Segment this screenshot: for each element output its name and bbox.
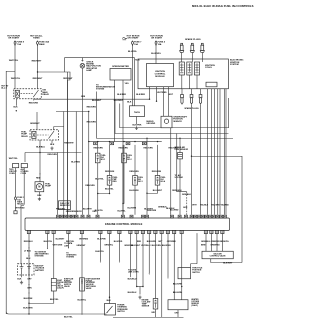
svg-text:YEL/BLK: YEL/BLK — [200, 205, 209, 207]
relay1 ground dot — [16, 110, 17, 111]
svg-text:FUSE 410A: FUSE 410A — [158, 41, 166, 46]
wire x47.5 down — [47, 233, 49, 248]
svg-text:BLU/YEL: BLU/YEL — [128, 51, 138, 53]
junction x89 y112 — [88, 111, 89, 112]
wire loop right — [192, 156, 243, 262]
svg-text:GRY: GRY — [158, 241, 163, 243]
bus dot 2 — [109, 141, 110, 142]
heated oxygen sensor box — [168, 300, 188, 310]
svg-text:GRN/WHT: GRN/WHT — [30, 123, 40, 125]
wire plug3 to coil — [201, 54, 203, 62]
ignition control module U1 — [147, 64, 174, 87]
ECM top connector 15 — [178, 215, 181, 218]
lamp CHECK ENGINE — [80, 63, 85, 68]
two-circuit connector A — [13, 164, 19, 168]
wire batt blk — [21, 275, 23, 277]
bus dot 3 — [123, 141, 124, 142]
svg-text:BLU/RED: BLU/RED — [71, 161, 80, 163]
svg-text:GRN/ORN: GRN/ORN — [124, 245, 134, 247]
svg-text:BLU/RED: BLU/RED — [114, 241, 123, 243]
svg-text:LT BLU: LT BLU — [24, 251, 32, 253]
ECM bottom connector 12 — [148, 230, 151, 233]
svg-text:WHT: WHT — [192, 205, 197, 207]
wire x161.75 down — [161, 233, 163, 317]
svg-text:BLU/GRN: BLU/GRN — [173, 284, 183, 286]
wire ect ground — [155, 309, 157, 317]
svg-text:ENGINECOOLANTTEMPSENSOR: ENGINECOOLANTTEMPSENSOR — [142, 299, 152, 307]
junction dl2 — [142, 286, 143, 287]
wire coil1 down — [181, 75, 183, 89]
ECM top connector 14 — [170, 215, 173, 218]
ECM bottom connector 14 — [160, 230, 163, 233]
ECM bottom connector 1 — [27, 230, 30, 233]
svg-text:MXX-XL ELEC W-DIAG FUEL IN: MXX-XL ELEC W-DIAG FUEL INJ CONTROLS — [192, 4, 254, 8]
svg-text:WHT/GRN: WHT/GRN — [53, 245, 63, 247]
svg-text:WHT: WHT — [168, 94, 173, 96]
evap solenoid box — [51, 279, 56, 292]
svg-text:SPARK PLUGS: SPARK PLUGS — [184, 107, 199, 110]
svg-text:BRN: BRN — [201, 245, 206, 247]
svg-text:BLK: BLK — [107, 300, 112, 302]
wire module to crank 1 — [163, 87, 165, 117]
injector supply bus — [89, 141, 162, 143]
relay2 inner dash — [37, 134, 49, 136]
svg-text:BLU/WHT: BLU/WHT — [83, 209, 93, 211]
svg-text:BLK/BLU: BLK/BLU — [36, 146, 45, 148]
wire x136.75 down — [136, 233, 138, 286]
wire vert x123 speedo — [122, 145, 124, 215]
ECM top connector 7 — [81, 215, 84, 218]
ground tach — [135, 126, 138, 129]
svg-text:RED/WHT: RED/WHT — [63, 78, 73, 80]
svg-text:FUSE 115AMAINRELAY: FUSE 115AMAINRELAY — [17, 197, 24, 205]
evap solenoid hatch — [51, 283, 56, 286]
arrow x29 c — [28, 284, 29, 285]
svg-text:FUELINJNO.3: FUELINJNO.3 — [138, 177, 144, 183]
ECM bottom connector 7 — [108, 230, 111, 233]
wire tach ground — [136, 117, 138, 125]
ign main relay box — [14, 89, 42, 99]
junction x147 top — [146, 138, 147, 139]
wire o2 feed1 — [173, 233, 175, 300]
ECM top connector 9 — [96, 215, 99, 218]
throttle position switch box — [178, 268, 191, 279]
ECM bottom connector 5 — [80, 230, 83, 233]
svg-text:BLK/PNK: BLK/PNK — [133, 125, 142, 127]
wire speedo left down — [114, 80, 116, 142]
spark plug P2 — [190, 43, 194, 54]
svg-text:VSS: VSS — [125, 83, 130, 85]
wire coil3 down — [196, 75, 198, 89]
ECM top connector 1 — [57, 215, 60, 218]
wire o2 ground — [177, 310, 179, 318]
wire left connB down — [21, 168, 24, 264]
ECM top connector 6 — [75, 215, 78, 218]
arrow x29 d — [28, 293, 29, 294]
svg-text:RED/GRN: RED/GRN — [48, 154, 58, 156]
svg-text:TOINSTRUMENTATIONSYSTEM: TOINSTRUMENTATIONSYSTEM — [96, 84, 116, 90]
svg-text:RED/GRN: RED/GRN — [119, 147, 129, 149]
svg-text:HOT IN RUNOR START: HOT IN RUNOR START — [7, 35, 20, 39]
ECM top connector 24 — [216, 215, 219, 218]
ECM bottom connector 2 — [46, 230, 49, 233]
ECM bottom connector 10 — [135, 230, 138, 233]
ECM bottom connector 21 — [221, 230, 224, 233]
junction module left — [149, 99, 150, 100]
relay1 out left — [15, 99, 17, 106]
wire x149.25 down — [148, 233, 150, 273]
ECM bottom connector 4 — [67, 230, 70, 233]
wire x82 down — [81, 233, 83, 315]
svg-text:BLU/GRN: BLU/GRN — [129, 190, 139, 192]
electronic ignition outer box — [138, 59, 228, 89]
wire ect feed — [155, 233, 157, 298]
svg-text:IDLE AIRCONTROL VALVE: IDLE AIRCONTROL VALVE — [210, 252, 227, 257]
svg-text:RED/GRN: RED/GRN — [87, 107, 97, 109]
svg-text:POWERSTEERINGPRESSURESWITCH: POWERSTEERINGPRESSURESWITCH — [117, 305, 128, 313]
fuel injector 3 — [133, 176, 138, 186]
wire iat feed — [179, 138, 181, 152]
svg-text:FUELINJNO.4: FUELINJNO.4 — [161, 177, 167, 183]
svg-text:RED/GRN: RED/GRN — [144, 147, 154, 149]
relay2 coil — [32, 131, 36, 138]
svg-text:FUSE 30AMAIN: FUSE 30AMAIN — [39, 41, 49, 46]
svg-text:RED/WHT: RED/WHT — [33, 78, 43, 80]
ECM top connector 10 — [121, 215, 124, 218]
wire branch to x70 — [38, 72, 71, 215]
two-circuit connector B — [21, 164, 27, 168]
iat hatch — [178, 155, 183, 157]
svg-text:BLK: BLK — [50, 144, 55, 146]
plug connector J1 — [181, 89, 184, 105]
svg-text:FUELINJNO.1: FUELINJNO.1 — [101, 155, 107, 161]
wire module blk/red left — [149, 87, 151, 99]
svg-text:BRN/YEL: BRN/YEL — [220, 241, 230, 243]
junction dl1 — [136, 286, 137, 287]
svg-text:RED/GRN: RED/GRN — [94, 147, 104, 149]
ECM top connector 20 — [201, 215, 204, 218]
bus dot 0 — [88, 141, 89, 142]
svg-text:FUELINJNO.2: FUELINJNO.2 — [127, 155, 133, 161]
ECM top connector 23 — [212, 215, 215, 218]
svg-text:BLK: BLK — [37, 195, 42, 197]
svg-text:EVAP/CANPURGEVACUUMSWITCHVALVE: EVAP/CANPURGEVACUUMSWITCHVALVE — [64, 277, 74, 288]
inline connector strip 1 — [94, 142, 98, 145]
svg-text:BACKUPVOLTAGEBATTERY: BACKUPVOLTAGEBATTERY — [35, 265, 45, 272]
plug connector J2 — [190, 89, 193, 105]
ECM top connector 4 — [68, 215, 71, 218]
svg-text:SHIELDGROUND: SHIELDGROUND — [146, 121, 155, 125]
wire iac feed4 — [222, 233, 224, 251]
arrow x68.5 — [68, 248, 69, 249]
arrow x29 a — [28, 248, 29, 249]
svg-text:SPARK PLUGS: SPARK PLUGS — [185, 38, 201, 41]
svg-text:HOT AT ALLTIMES: HOT AT ALLTIMES — [30, 34, 43, 39]
fuse F4 — [155, 41, 157, 47]
svg-text:BLK: BLK — [14, 106, 19, 108]
svg-text:FUELPUMP: FUELPUMP — [45, 183, 51, 187]
bus dot 5 — [157, 141, 158, 142]
wire speedo right down — [122, 80, 124, 215]
junction x29 bus — [28, 313, 29, 314]
wire instr bracket — [97, 92, 234, 139]
svg-text:BLU/YEL: BLU/YEL — [95, 178, 104, 180]
wire vert right 211.5 — [211, 89, 213, 215]
svg-text:BLK/PNK: BLK/PNK — [24, 298, 33, 300]
wire vert right 207.5 — [207, 89, 209, 215]
wire vert right 226 — [225, 89, 227, 215]
ECM bottom connector 13 — [154, 230, 157, 233]
bracket B2 — [115, 99, 229, 133]
spark plug P1 — [180, 43, 184, 54]
svg-text:BLK/ORN: BLK/ORN — [148, 210, 157, 212]
module blk dot — [156, 101, 157, 102]
ECM top connector 26 — [223, 215, 226, 218]
svg-text:HOT IN RUNOR START: HOT IN RUNOR START — [150, 35, 163, 39]
svg-text:HOT ATALL X: HOT ATALL X — [1, 84, 9, 89]
ECM top connector 18 — [194, 215, 197, 218]
inline connector strip 2 — [110, 142, 114, 145]
ECM bottom connector 20 — [215, 230, 218, 233]
wire pump ground — [38, 192, 40, 197]
wire vert x88.75 — [88, 112, 90, 215]
ECM bottom connector 3 — [52, 230, 55, 233]
svg-text:RED/WHT: RED/WHT — [64, 143, 74, 145]
wire plug1 to coil — [181, 54, 183, 62]
junction iat — [179, 138, 180, 139]
wire vert right 217.75 — [217, 89, 219, 215]
svg-text:BLU/ORN: BLU/ORN — [152, 245, 162, 247]
svg-text:RED/YEL: RED/YEL — [66, 241, 75, 243]
wire inj4 feed — [157, 145, 159, 176]
wire vert right 214.5 — [214, 89, 216, 215]
spark plug P3 — [200, 43, 204, 54]
ignition coil T1 — [179, 62, 184, 75]
junction x29 y303 — [28, 303, 29, 304]
wire vert right 220 — [219, 89, 221, 215]
svg-text:TO A/CSYSTEM: TO A/CSYSTEM — [175, 174, 184, 179]
wire fpr down — [98, 185, 110, 193]
ECM top connector 22 — [209, 215, 212, 218]
bracket B1 — [120, 98, 229, 128]
ground battery — [20, 281, 23, 284]
svg-text:SPEEDOMETER: SPEEDOMETER — [112, 66, 129, 68]
wire vert x171.75 crank — [170, 128, 172, 215]
wire vert x63.75 — [63, 112, 65, 215]
svg-text:BLK/ORN: BLK/ORN — [23, 307, 33, 309]
left connector stub — [14, 211, 17, 214]
junction inj2 merge — [122, 203, 123, 204]
wire map link — [191, 264, 198, 268]
svg-text:ENGINE CONTROL MODULE: ENGINE CONTROL MODULE — [105, 222, 142, 226]
pump feed arrow — [39, 174, 40, 175]
wire fuse4 down — [155, 45, 157, 63]
wire fuse5 down — [15, 201, 17, 211]
relay2 feed right — [54, 127, 64, 130]
svg-text:WHT/YEL: WHT/YEL — [9, 158, 19, 160]
svg-text:BLK/YEL: BLK/YEL — [50, 299, 59, 301]
wire x68.5 down — [68, 233, 70, 248]
wire x130.5 down — [130, 233, 132, 277]
idle air control valve box — [202, 251, 233, 259]
ECM top connector 3 — [64, 215, 67, 218]
ps switch pivot — [106, 312, 107, 313]
junction ps — [109, 297, 110, 298]
inline connector strip 4 — [142, 142, 146, 145]
wire iat down — [179, 159, 181, 215]
wire inj3 down — [134, 185, 136, 215]
wire AC stub — [177, 134, 187, 192]
bus dot 4 — [134, 141, 135, 142]
svg-text:WHT/RED: WHT/RED — [15, 207, 25, 209]
ECM bottom connector 11 — [141, 230, 144, 233]
svg-text:RED/GRN: RED/GRN — [29, 102, 39, 104]
svg-text:YEL/GRN: YEL/GRN — [211, 205, 220, 207]
svg-text:BRN/RED: BRN/RED — [211, 245, 221, 247]
wire x57 down — [57, 153, 59, 215]
svg-text:RED/GRN: RED/GRN — [129, 171, 139, 173]
svg-text:BLU/RED: BLU/RED — [170, 210, 179, 212]
svg-text:BLK/RED: BLK/RED — [117, 94, 126, 96]
wire x100.5 down — [100, 233, 102, 261]
arrow x149.25 — [149, 274, 150, 275]
wire vert right 191.5 — [191, 105, 193, 215]
svg-text:BLK/BLU: BLK/BLU — [128, 292, 137, 294]
svg-text:GRN: GRN — [183, 207, 188, 209]
svg-text:WHT/RED: WHT/RED — [79, 238, 88, 240]
wire relay1 to module — [34, 98, 150, 100]
wire iac feed2 — [211, 233, 213, 251]
crank sensor inner — [164, 119, 168, 123]
svg-text:BLU/YEL: BLU/YEL — [118, 210, 127, 212]
ECM bottom connector 15 — [166, 230, 169, 233]
svg-text:BLK/YEL: BLK/YEL — [44, 241, 53, 243]
svg-text:IGNMAINRELAY: IGNMAINRELAY — [42, 90, 49, 96]
svg-text:TACH: TACH — [134, 111, 140, 114]
wire lamp top to tach — [65, 58, 135, 106]
svg-text:CRANKSHAFTPOSITIONSENSOR: CRANKSHAFTPOSITIONSENSOR — [173, 116, 188, 123]
ECM top connector 13 — [146, 215, 149, 218]
wire evap feed — [53, 233, 55, 278]
relay2 feed wire — [36, 112, 38, 130]
tach box — [130, 106, 145, 117]
battery cell 1 — [20, 264, 24, 275]
svg-text:GRN: GRN — [81, 96, 86, 98]
speedometer box — [110, 69, 131, 81]
wire inj2 down — [123, 163, 124, 204]
fuel pump box — [35, 182, 44, 192]
svg-text:WHT/RED: WHT/RED — [157, 92, 167, 94]
ECM top connector 8 — [87, 215, 90, 218]
svg-text:INTAKE AIRTEMP SENSOR: INTAKE AIRTEMP SENSOR — [174, 146, 188, 151]
fuse F5 lower — [15, 196, 17, 202]
ECM top connector 25 — [220, 215, 223, 218]
svg-text:FUSE 710A: FUSE 710A — [134, 42, 142, 46]
svg-text:BLU/YEL: BLU/YEL — [78, 299, 87, 301]
ECM bottom connector 17 — [180, 230, 183, 233]
ground fuel pump — [38, 197, 41, 200]
arrow x100.5 — [100, 262, 101, 263]
wire x143 down — [142, 233, 144, 286]
svg-text:RED/WHT: RED/WHT — [32, 61, 42, 63]
relay1 out right — [33, 99, 35, 101]
svg-text:HEATEDOXYGENSENSOR(CALIF): HEATEDOXYGENSENSOR(CALIF) — [191, 298, 199, 307]
svg-text:GRY: GRY — [27, 279, 32, 281]
fuel pump relay box — [30, 130, 59, 140]
relay2 horiz — [25, 152, 82, 154]
svg-text:BLU/ORG: BLU/ORG — [151, 53, 161, 55]
svg-text:RED: RED — [137, 241, 142, 243]
svg-text:FUSE 87.5A: FUSE 87.5A — [17, 42, 25, 46]
ECM top connector 11 — [130, 215, 133, 218]
engine control module box — [25, 218, 230, 230]
wire fuse1 down — [14, 45, 16, 89]
svg-text:RED/GRN: RED/GRN — [85, 185, 95, 187]
svg-text:PNK/GRN: PNK/GRN — [56, 209, 65, 211]
fuse F1 — [14, 41, 16, 47]
wire x119.5 down — [119, 233, 121, 261]
ECM top connector 2 — [60, 215, 63, 218]
svg-text:GRY: GRY — [174, 312, 179, 314]
wire evap down — [29, 291, 54, 303]
wire vert x76.25 — [75, 112, 77, 215]
svg-text:RED/GRN: RED/GRN — [105, 171, 115, 173]
wire iac return — [211, 259, 242, 263]
wire vert x99 inj1 feed — [97, 145, 99, 153]
wire vert x147 return — [146, 138, 148, 215]
arrow x119.5 — [119, 262, 120, 263]
fuel pump resistor — [107, 176, 112, 186]
arrow x168 — [167, 278, 168, 279]
wire y112 branch — [56, 111, 89, 113]
svg-text:RED/GRN: RED/GRN — [87, 122, 97, 124]
ground bus right — [113, 316, 184, 318]
svg-text:BLK/WHT: BLK/WHT — [92, 100, 102, 102]
wire inj4 down — [147, 185, 158, 193]
wire module to crank 2 — [168, 87, 170, 117]
ground datalink — [138, 296, 141, 299]
wire lamp down — [81, 68, 83, 215]
ECM bottom connector 18 — [204, 230, 207, 233]
crankshaft position sensor box — [161, 116, 172, 128]
wire iac feed1 — [205, 233, 207, 251]
wire left rail branch — [6, 71, 15, 314]
resistor box lower left — [59, 201, 71, 210]
svg-text:GRN/RED: GRN/RED — [211, 241, 221, 243]
svg-text:BLK/RED: BLK/RED — [162, 245, 171, 247]
wire vert right 200.5 — [200, 105, 202, 215]
fuse F3 — [132, 41, 134, 47]
svg-text:GRN/YEL: GRN/YEL — [104, 244, 114, 246]
ps switch lever — [107, 306, 113, 313]
bus dot 1 — [97, 141, 98, 142]
igniter sub box 2 — [206, 82, 217, 87]
wire dashed AC — [186, 192, 188, 215]
svg-text:EVAP/CANISTERPURGESOLENOIDVACU: EVAP/CANISTERPURGESOLENOIDVACUUMSWITCHIN… — [86, 277, 101, 290]
junction inj4 merge — [146, 193, 147, 194]
plug connector J3 — [199, 89, 202, 105]
svg-text:TOCHARGINGSYSTEM: TOCHARGINGSYSTEM — [66, 252, 77, 258]
svg-text:BLK: BLK — [17, 279, 22, 281]
junction fpr out2 — [97, 193, 98, 194]
ECM top connector 16 — [184, 215, 187, 218]
svg-text:TO DATALINK CONN: TO DATALINK CONN — [128, 269, 139, 274]
ECM top connector 19 — [198, 215, 201, 218]
svg-text:WHT/YEL: WHT/YEL — [11, 78, 21, 80]
svg-text:RED/BLU: RED/BLU — [24, 241, 33, 243]
wire fuse2 down — [37, 45, 39, 89]
relay1 inner dash — [21, 93, 34, 95]
